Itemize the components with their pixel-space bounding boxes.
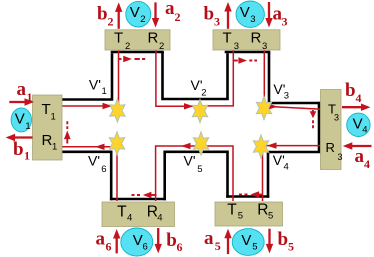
- port arrow b2 (up out of box2): [115, 2, 122, 28]
- svg-text:3: 3: [234, 41, 239, 52]
- port label b2: [97, 3, 114, 28]
- wire line6 (box4 left leg up, across to box1 R1 port): [62, 152, 111, 201]
- svg-text:R: R: [251, 29, 262, 46]
- label T4: [117, 203, 132, 223]
- wire bridge bar under box T3R3: [225, 51, 271, 54]
- label R4: [147, 203, 163, 223]
- svg-text:2: 2: [175, 10, 181, 24]
- label R3 top: [251, 29, 268, 52]
- port arrow a2 (down into box2): [152, 2, 159, 27]
- svg-text:T: T: [114, 30, 123, 47]
- svg-text:a: a: [17, 79, 27, 100]
- label R3 right: [326, 140, 343, 162]
- junction box T3 R3 (right): [321, 90, 342, 170]
- junction box T3 R3 (top right): [213, 30, 280, 50]
- wire red box2 right leg down to node V'2: [156, 49, 200, 106]
- svg-text:4: 4: [362, 125, 367, 136]
- node V'4 star: [253, 135, 268, 158]
- svg-text:1: 1: [25, 121, 30, 132]
- junction box T5 R5 (bottom right): [215, 202, 283, 226]
- svg-text:V': V': [89, 76, 101, 92]
- svg-text:3: 3: [334, 112, 339, 122]
- source label V6: [133, 232, 148, 253]
- label R2: [148, 30, 165, 52]
- port arrow b3 (up out of box3): [224, 2, 231, 29]
- svg-text:b: b: [278, 229, 289, 250]
- svg-text:3: 3: [338, 152, 343, 162]
- label R1: [42, 132, 58, 152]
- dashed arrow above box T4R4 pointing left: [132, 192, 157, 199]
- wire red box4 left riser up, across node V'6, into box1 R1: [62, 147, 117, 201]
- svg-text:3: 3: [282, 15, 288, 29]
- svg-text:b: b: [166, 230, 177, 251]
- node V'1 star: [110, 99, 125, 122]
- svg-text:5: 5: [215, 239, 221, 253]
- node V'3 star: [256, 96, 271, 119]
- svg-text:4: 4: [356, 91, 362, 105]
- svg-text:1: 1: [51, 112, 56, 123]
- svg-text:V': V': [184, 153, 196, 169]
- label T3 top: [223, 29, 240, 52]
- wire line5 (box5 left leg up, across to box4 right leg): [165, 152, 228, 201]
- svg-text:T: T: [227, 201, 237, 218]
- port label a3: [273, 3, 288, 28]
- svg-text:b: b: [204, 3, 215, 24]
- wire bridge bar left of right box: [318, 102, 321, 152]
- svg-text:R: R: [148, 30, 159, 47]
- node label V'6: [88, 153, 107, 176]
- node V'5 star: [193, 132, 208, 155]
- wire red box5 left riser up, across node V'5, down into box4: [156, 146, 233, 201]
- svg-text:5: 5: [252, 241, 257, 252]
- svg-text:3: 3: [250, 14, 255, 25]
- port arrow b4 (out of right box): [342, 104, 371, 111]
- svg-text:R: R: [257, 201, 268, 218]
- wire red node V'3 to right box: [264, 106, 321, 109]
- port arrow a1 (into box1): [9, 98, 34, 105]
- node label V'4: [273, 152, 289, 173]
- svg-text:V: V: [353, 115, 363, 132]
- port arrow a6 (up into box4): [113, 229, 120, 253]
- port arrow a5 (up into box5): [224, 229, 231, 254]
- svg-text:T: T: [117, 203, 127, 220]
- source V2: [126, 1, 151, 27]
- dashed arrow above box T5R5 pointing left: [239, 191, 263, 198]
- source label V4: [353, 115, 368, 135]
- svg-text:V: V: [130, 4, 140, 21]
- svg-text:b: b: [345, 80, 356, 101]
- node label V'3: [273, 81, 289, 102]
- port label b4: [345, 80, 362, 105]
- svg-text:5: 5: [197, 164, 202, 175]
- svg-text:1: 1: [27, 90, 33, 104]
- node label V'5: [184, 153, 203, 175]
- svg-text:3: 3: [214, 15, 220, 29]
- svg-text:V: V: [133, 232, 143, 249]
- wire bridge bar above box T4R4: [110, 198, 166, 201]
- node label V'2: [191, 77, 207, 99]
- svg-text:T: T: [223, 29, 232, 46]
- svg-text:R: R: [326, 140, 335, 155]
- svg-text:R: R: [42, 132, 53, 149]
- label T5: [227, 201, 243, 221]
- source label V5: [241, 232, 257, 253]
- svg-text:V: V: [15, 111, 25, 128]
- wire bridge bar under box T2R2: [111, 51, 164, 54]
- svg-text:6: 6: [177, 240, 183, 254]
- svg-text:a: a: [165, 0, 175, 19]
- label T1: [42, 101, 56, 123]
- svg-text:2: 2: [201, 88, 206, 99]
- svg-text:2: 2: [108, 15, 114, 29]
- svg-text:a: a: [96, 228, 106, 249]
- dashed arrow under box T3R3 pointing right: [233, 57, 257, 64]
- svg-text:a: a: [204, 228, 214, 249]
- port label b3: [204, 3, 221, 28]
- source label V3: [240, 4, 256, 25]
- svg-text:2: 2: [159, 41, 164, 52]
- svg-text:1: 1: [24, 149, 30, 163]
- label R5: [257, 201, 273, 221]
- svg-text:V: V: [240, 4, 250, 21]
- wire red signal T1 line to node V'1: [62, 105, 117, 107]
- svg-text:5: 5: [288, 240, 294, 254]
- svg-text:1: 1: [102, 86, 107, 97]
- source V6: [121, 228, 153, 256]
- node V'2 star: [192, 99, 207, 122]
- wire line1 top conductor (T1 to junction, up to box2): [62, 53, 112, 99]
- source V5: [232, 229, 264, 256]
- source V4: [347, 113, 370, 136]
- port label a2: [165, 0, 181, 24]
- dashed arrow inside box1 T1R1 pointing up: [64, 121, 71, 143]
- port label b6: [166, 230, 182, 254]
- wire red riser V'1 up into box2: [118, 49, 120, 109]
- svg-text:3: 3: [262, 41, 267, 52]
- svg-text:6: 6: [143, 242, 148, 253]
- svg-text:4: 4: [364, 157, 370, 171]
- port label a6: [96, 228, 112, 253]
- svg-text:2: 2: [125, 41, 130, 52]
- port label b5: [278, 229, 295, 254]
- wire red node V'2 to box3 left riser: [200, 49, 234, 106]
- svg-text:b: b: [13, 139, 24, 160]
- svg-text:4: 4: [127, 212, 132, 223]
- svg-text:4: 4: [284, 162, 289, 173]
- svg-text:b: b: [97, 3, 108, 24]
- source label V2: [130, 4, 146, 25]
- wire red right box bottom to node V'4, down into box5: [263, 146, 322, 201]
- wire red box3 right leg down to node V'3: [263, 49, 265, 106]
- svg-text:5: 5: [268, 211, 273, 222]
- source V1: [11, 108, 31, 132]
- label T2: [114, 30, 130, 52]
- svg-text:a: a: [355, 146, 365, 167]
- port label a1: [17, 79, 33, 104]
- svg-text:T: T: [42, 101, 51, 118]
- port label a5: [204, 228, 221, 253]
- port arrow a4 (into right box): [343, 142, 372, 149]
- port label a4: [355, 146, 371, 171]
- source V3: [236, 1, 264, 27]
- wire bridge bar above box T5R5: [226, 195, 269, 198]
- svg-text:V': V': [88, 153, 100, 169]
- node label V'1: [89, 76, 107, 97]
- svg-text:6: 6: [106, 240, 112, 254]
- label T3 right: [328, 101, 339, 122]
- svg-text:2: 2: [140, 14, 145, 25]
- svg-text:5: 5: [238, 211, 243, 222]
- junction box T2 R2 (top left): [105, 30, 170, 50]
- dashed arrow left of right box pointing down: [310, 110, 317, 128]
- svg-text:4: 4: [157, 212, 162, 223]
- junction box T1 R1 (left): [33, 95, 63, 160]
- svg-text:6: 6: [101, 164, 106, 175]
- junction box T4 R4 (bottom left): [102, 202, 175, 227]
- svg-text:3: 3: [284, 91, 289, 102]
- port arrow a3 (down into box3): [265, 2, 272, 28]
- wire line4 (right box bottom across, down to box5): [268, 152, 320, 198]
- wire line2 (box2 right leg down, across to box3 left leg): [163, 52, 228, 99]
- port arrow b1 (out of box1): [6, 134, 33, 141]
- port label b1: [13, 139, 30, 163]
- port arrow b6 (down out of box4): [155, 228, 162, 253]
- port arrow b5 (down out of box5): [266, 229, 273, 254]
- source label V1: [15, 111, 31, 133]
- node V'6 star: [109, 132, 124, 155]
- svg-text:1: 1: [52, 141, 57, 152]
- dashed arrow under box T2R2 pointing right: [119, 56, 146, 63]
- wire line3 (box3 right leg down, across to right box): [269, 52, 319, 103]
- svg-text:V: V: [241, 232, 251, 249]
